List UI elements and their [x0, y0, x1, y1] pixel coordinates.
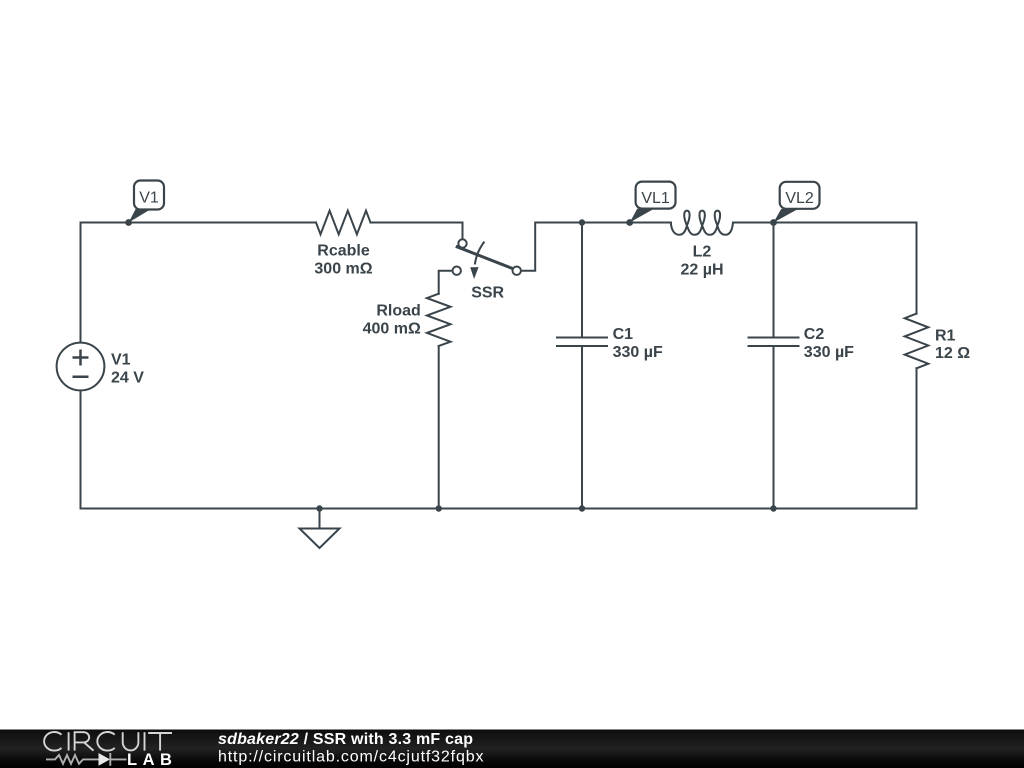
svg-text:http://circuitlab.com/c4cjutf3: http://circuitlab.com/c4cjutf32fqbx — [218, 749, 484, 766]
svg-text:12 Ω: 12 Ω — [935, 345, 970, 362]
svg-text:C2: C2 — [804, 326, 825, 343]
svg-text:R1: R1 — [935, 327, 956, 344]
svg-text:330 µF: 330 µF — [613, 344, 663, 361]
svg-text:24 V: 24 V — [111, 369, 144, 386]
svg-text:400 mΩ: 400 mΩ — [363, 320, 421, 337]
svg-text:C1: C1 — [613, 326, 634, 343]
svg-text:V1: V1 — [139, 190, 159, 207]
svg-text:sdbaker22 / SSR with 3.3 mF ca: sdbaker22 / SSR with 3.3 mF cap — [218, 731, 473, 748]
svg-text:VL1: VL1 — [641, 190, 670, 207]
svg-text:SSR: SSR — [471, 285, 504, 302]
svg-text:330 µF: 330 µF — [804, 344, 854, 361]
svg-text:L2: L2 — [693, 244, 712, 261]
svg-text:Rload: Rload — [376, 302, 420, 319]
svg-text:Rcable: Rcable — [317, 243, 370, 260]
svg-text:VL2: VL2 — [785, 190, 814, 207]
svg-text:22 µH: 22 µH — [680, 262, 723, 279]
svg-text:LAB: LAB — [127, 751, 177, 768]
svg-text:V1: V1 — [111, 351, 131, 368]
svg-text:300 mΩ: 300 mΩ — [314, 261, 372, 278]
